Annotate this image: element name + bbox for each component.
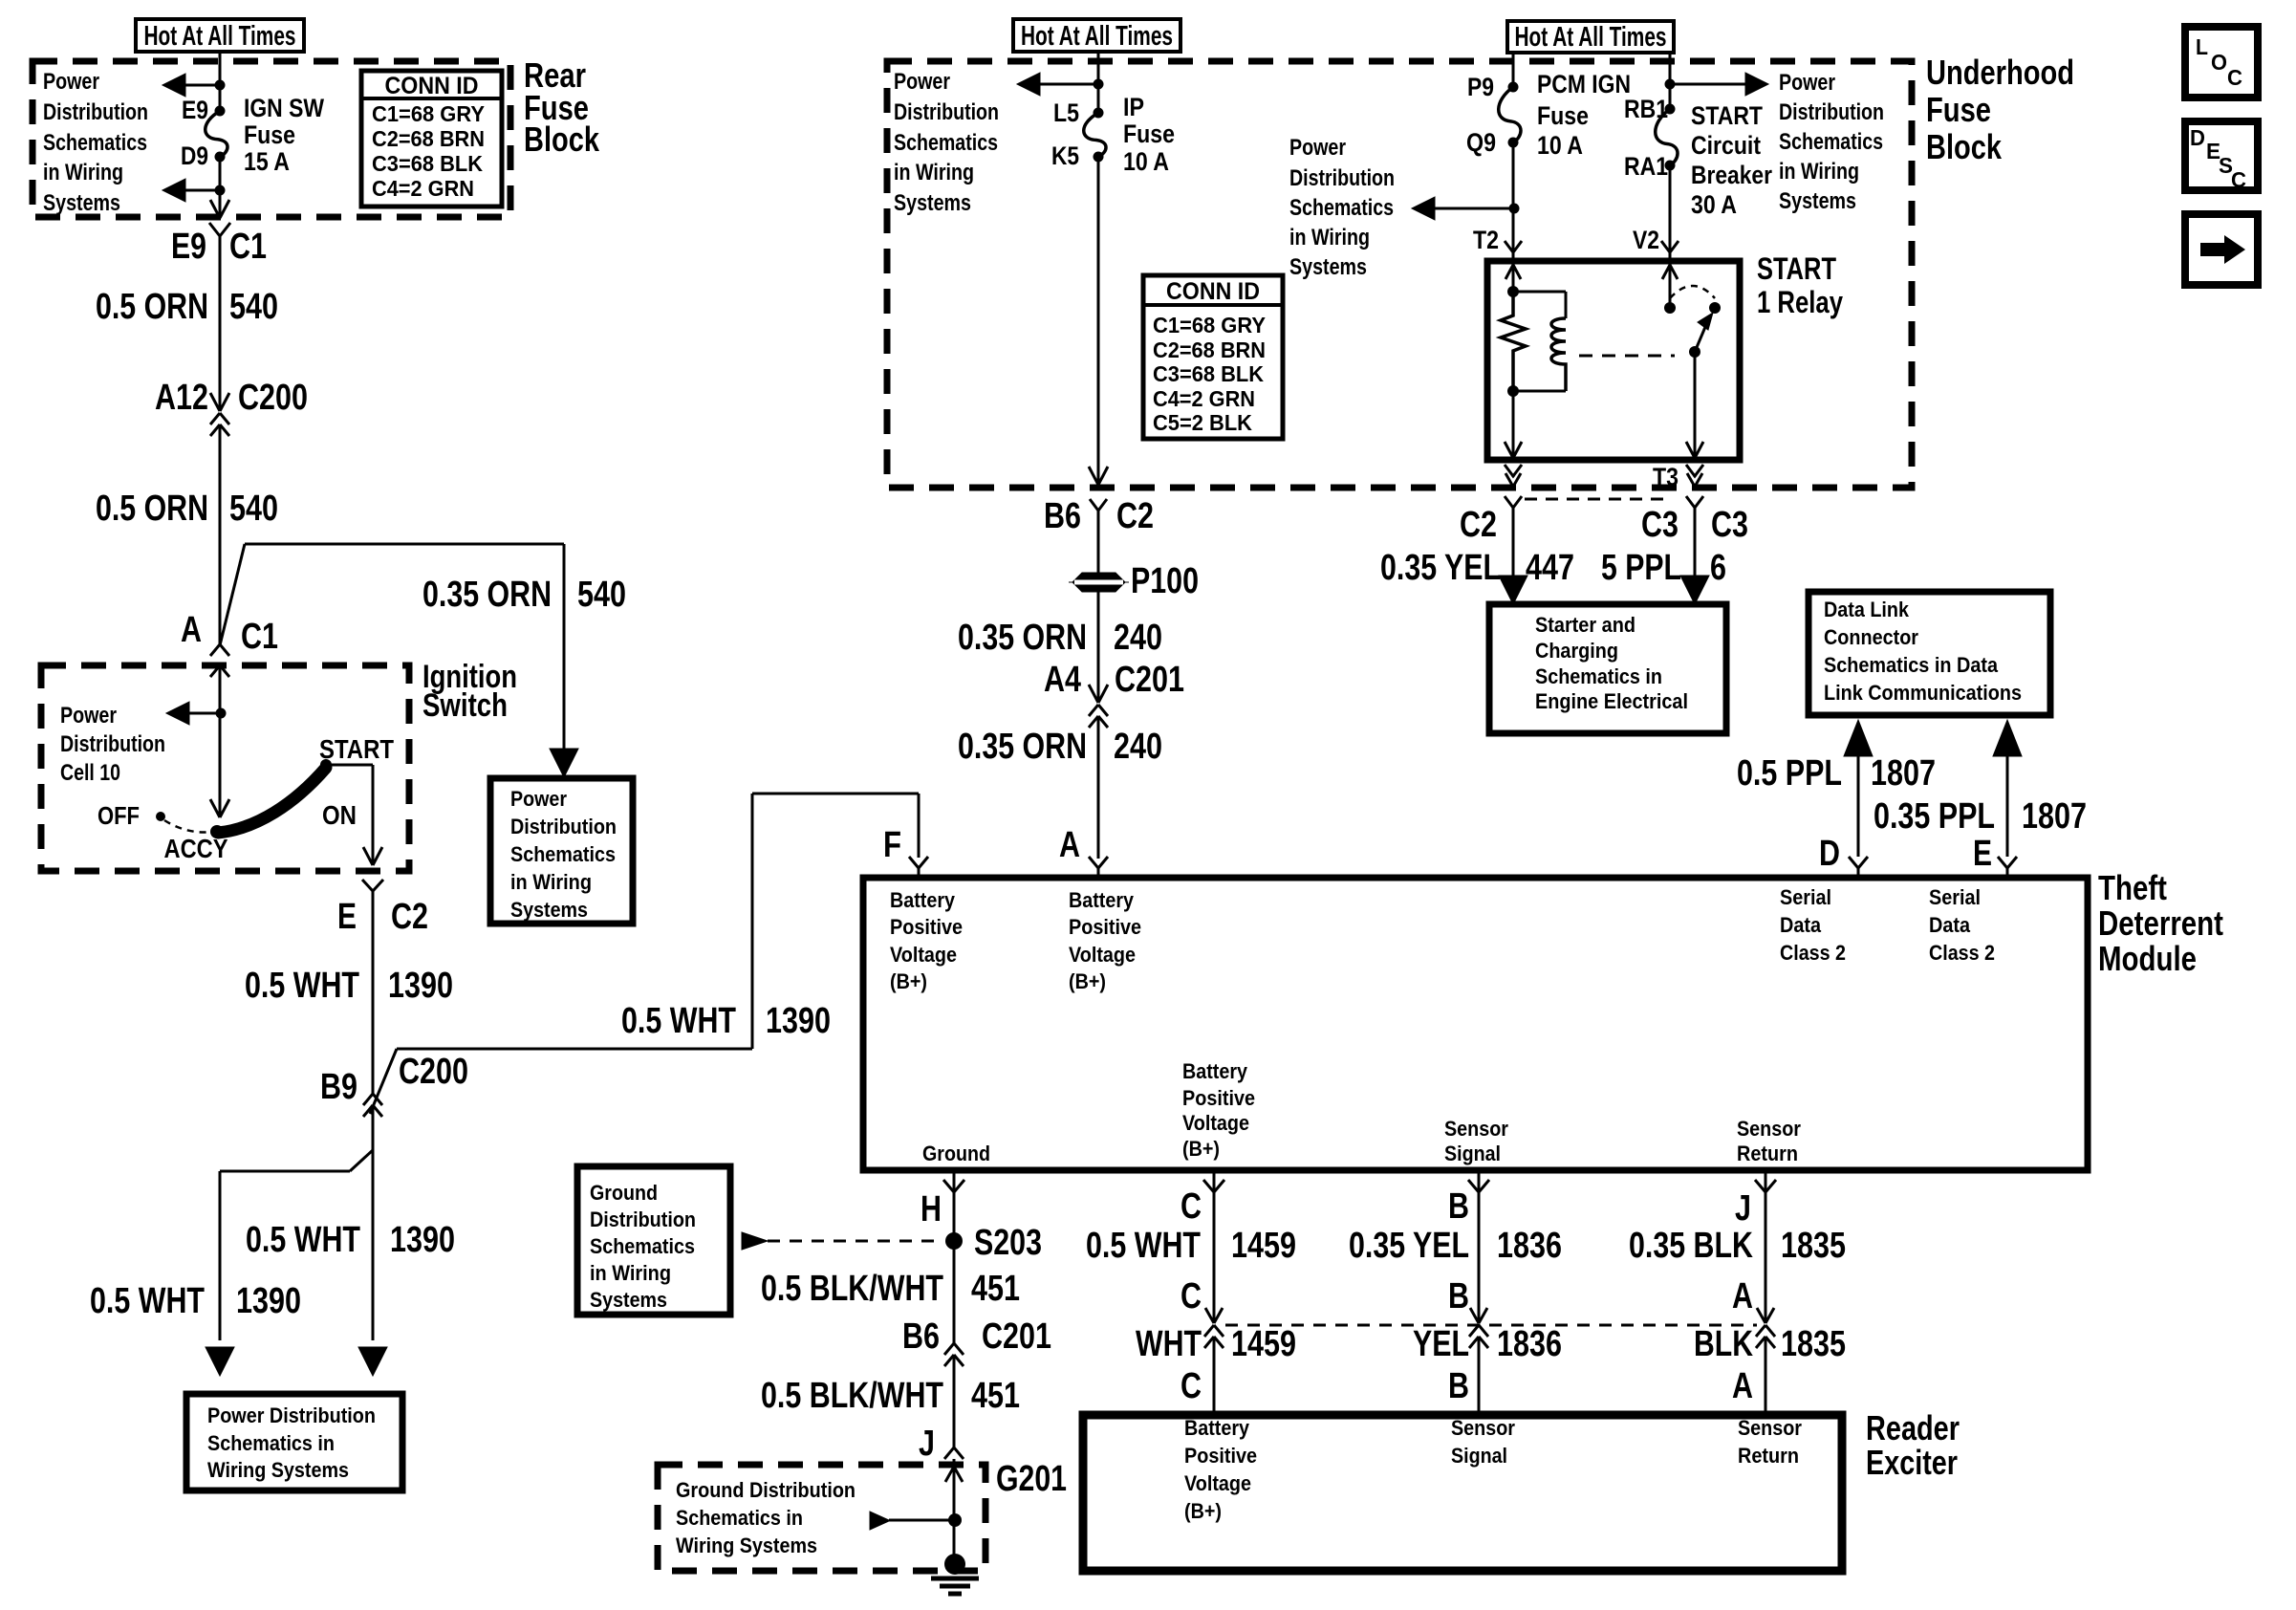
text Power Distribution Schematics in Wiring Systems (IP) — [894, 69, 999, 216]
text terminal L5 — [1053, 98, 1079, 127]
text Ground label pin H — [922, 1142, 990, 1165]
text terminal E9 — [182, 96, 208, 124]
svg-text:Distribution: Distribution — [894, 99, 999, 125]
text 0.5 PPL 1807 — [1737, 753, 1936, 794]
text pin A — [1059, 825, 1080, 865]
svg-text:Distribution: Distribution — [1289, 165, 1395, 191]
svg-text:Reader: Reader — [1866, 1408, 1960, 1447]
text 0.35 YEL 1836 — [1349, 1226, 1562, 1266]
svg-text:0.35 PPL: 0.35 PPL — [1874, 796, 1995, 837]
svg-text:CONN ID: CONN ID — [1166, 278, 1260, 305]
svg-text:C: C — [1180, 1276, 1202, 1316]
wire relay coil to T2 out — [1505, 391, 1522, 458]
pin D theft deterrent module — [1849, 857, 1868, 878]
resistor relay — [1501, 292, 1526, 391]
text A4 C201 labels — [1044, 660, 1184, 700]
svg-text:(B+): (B+) — [1069, 969, 1106, 993]
text terminal RA1 — [1624, 152, 1668, 181]
svg-text:Positive: Positive — [1069, 915, 1141, 939]
svg-text:B: B — [1448, 1276, 1469, 1316]
node junction below D9 — [215, 185, 226, 196]
node relay coil top — [1507, 286, 1519, 297]
fuse PCM IGN 10 A — [1499, 82, 1521, 148]
svg-text:C2: C2 — [1116, 496, 1154, 536]
box Data Link Connector Schematics — [1809, 592, 2050, 715]
svg-text:BLK: BLK — [1694, 1324, 1753, 1364]
svg-text:C: C — [1180, 1366, 1202, 1406]
svg-text:V2: V2 — [1633, 226, 1659, 254]
text Battery Positive Voltage (B+) pin A — [1069, 888, 1141, 993]
pin H theft deterrent module — [943, 1170, 964, 1192]
svg-text:Deterrent: Deterrent — [2098, 903, 2223, 943]
svg-text:Signal: Signal — [1444, 1142, 1501, 1165]
box Theft Deterrent Module — [863, 878, 2088, 1170]
svg-text:Schematics: Schematics — [590, 1234, 695, 1258]
wire fuse output D9 — [219, 157, 222, 218]
wire coil branch bottom — [1513, 390, 1566, 393]
svg-text:Signal: Signal — [1451, 1444, 1507, 1468]
relay box START 1 Relay — [1487, 261, 1740, 460]
svg-text:PCM IGN: PCM IGN — [1537, 70, 1631, 98]
dashed box G201 Ground Distribution — [658, 1465, 986, 1571]
svg-text:Hot At All Times: Hot At All Times — [1021, 21, 1173, 52]
text Theft Deterrent Module — [2098, 868, 2223, 978]
svg-text:J: J — [919, 1424, 935, 1464]
text E C2 labels — [337, 897, 428, 937]
text pin J (ground) — [919, 1424, 935, 1464]
svg-text:Block: Block — [524, 120, 600, 159]
wire A to reader — [1765, 1337, 1767, 1415]
wire serial data D — [1844, 720, 1873, 857]
text B9 C200 labels — [320, 1052, 468, 1107]
svg-text:1807: 1807 — [2022, 796, 2087, 837]
node relay coil bottom — [1507, 385, 1519, 397]
text A12 C200 labels — [155, 378, 308, 418]
svg-text:O: O — [2211, 50, 2227, 75]
svg-text:1835: 1835 — [1781, 1226, 1846, 1266]
grommet P100 — [1069, 573, 1129, 592]
text 0.35 BLK 1835 — [1629, 1226, 1846, 1266]
pin C theft deterrent module — [1203, 1170, 1224, 1192]
svg-text:Schematics in: Schematics in — [676, 1506, 803, 1530]
svg-text:1390: 1390 — [236, 1281, 301, 1321]
node START contact — [320, 759, 332, 771]
wire relay coil feed — [1505, 252, 1521, 292]
wire B module to connector — [1470, 1192, 1487, 1323]
svg-text:1390: 1390 — [766, 1001, 831, 1041]
svg-text:Cell 10: Cell 10 — [60, 760, 120, 786]
box Reader Exciter — [1083, 1415, 1842, 1571]
arrow into power distribution box right — [358, 1347, 387, 1376]
text pin B — [1448, 1186, 1469, 1227]
svg-text:START: START — [319, 734, 394, 764]
svg-text:(B+): (B+) — [1184, 1499, 1222, 1523]
text pin H — [921, 1189, 942, 1229]
arrow to power distribution (IP) — [1017, 73, 1098, 96]
svg-text:Underhood: Underhood — [1926, 53, 2074, 92]
svg-text:Data: Data — [1780, 913, 1822, 937]
svg-text:IGN SW: IGN SW — [244, 94, 324, 122]
wire serial data E — [1993, 720, 2022, 857]
text B6 C2 labels — [1044, 496, 1154, 536]
text 0.5 ORN 540 upper — [96, 287, 278, 327]
svg-text:Distribution: Distribution — [510, 815, 617, 838]
label box Hot At All Times (underhood) — [1507, 21, 1674, 53]
svg-text:A: A — [181, 610, 202, 650]
svg-text:C4=2 GRN: C4=2 GRN — [372, 176, 474, 201]
label box Hot At All Times (IP fuse) — [1013, 19, 1180, 52]
svg-text:Return: Return — [1738, 1444, 1799, 1468]
svg-text:in Wiring: in Wiring — [1289, 225, 1370, 250]
svg-text:Starter and: Starter and — [1535, 613, 1635, 637]
svg-text:E: E — [1973, 834, 1992, 874]
text Power Distribution Schematics in Wiring Systems (right) — [1779, 70, 1884, 214]
svg-text:1390: 1390 — [388, 966, 453, 1006]
svg-text:Sensor: Sensor — [1444, 1117, 1508, 1141]
svg-text:E9: E9 — [171, 227, 206, 267]
fuse IGN SW 15 A — [206, 106, 227, 163]
svg-text:0.35 ORN: 0.35 ORN — [422, 575, 552, 615]
svg-text:1459: 1459 — [1231, 1324, 1296, 1364]
text IGN SW Fuse 15 A — [244, 94, 324, 176]
text START 1 Relay — [1757, 251, 1843, 319]
svg-text:Data Link: Data Link — [1824, 598, 1910, 621]
svg-text:C: C — [1180, 1186, 1202, 1227]
svg-text:Circuit: Circuit — [1691, 131, 1761, 160]
text 0.5 BLK/WHT 451 upper — [761, 1269, 1020, 1309]
text C2 label — [1460, 505, 1497, 545]
svg-text:1390: 1390 — [390, 1220, 455, 1260]
svg-text:5 PPL: 5 PPL — [1601, 548, 1681, 588]
svg-text:1459: 1459 — [1231, 1226, 1296, 1266]
svg-text:C200: C200 — [238, 378, 308, 418]
dashed box Rear Fuse Block — [32, 61, 510, 217]
svg-text:C2=68 BRN: C2=68 BRN — [372, 126, 485, 151]
text terminal T2 — [1473, 226, 1499, 254]
text P100 — [1131, 561, 1199, 601]
svg-text:Ground: Ground — [590, 1181, 658, 1205]
text A C1 labels — [181, 610, 278, 657]
dashed link inline connector — [1225, 1324, 1757, 1327]
text Underhood Fuse Block — [1926, 53, 2074, 166]
svg-text:0.5 BLK/WHT: 0.5 BLK/WHT — [761, 1269, 943, 1309]
relay movable contact arm — [1695, 313, 1713, 352]
svg-text:C: C — [2231, 167, 2246, 192]
svg-text:Battery: Battery — [1069, 888, 1135, 912]
text Power Distribution Cell 10 — [60, 703, 165, 786]
text Ignition Switch — [422, 659, 517, 724]
pin A theft deterrent module — [1089, 857, 1108, 878]
text terminal P9 — [1467, 73, 1494, 101]
dashed box Underhood Fuse Block / IP — [887, 61, 1912, 488]
svg-text:WHT: WHT — [1136, 1324, 1202, 1364]
svg-text:Schematics: Schematics — [894, 130, 998, 156]
connector ground J pin — [944, 1447, 964, 1459]
wire PCM IGN fuse output — [1512, 142, 1515, 252]
box Power Distribution Schematics in Wiring Systems (bottom left) — [186, 1394, 402, 1490]
text Reader Exciter — [1866, 1408, 1960, 1482]
svg-text:K5: K5 — [1051, 141, 1079, 170]
text IP Fuse 10 A — [1123, 93, 1175, 176]
connector A-C1 chevrons — [210, 644, 229, 677]
svg-text:Voltage: Voltage — [890, 943, 957, 967]
svg-text:Engine Electrical: Engine Electrical — [1535, 689, 1688, 713]
dashed box Ignition Switch — [41, 665, 409, 871]
wire 0.5 ORN 540 upper — [219, 236, 222, 411]
text S203 — [974, 1223, 1042, 1263]
svg-text:0.5 WHT: 0.5 WHT — [245, 966, 359, 1006]
icon box arrow — [2185, 214, 2258, 285]
arrow to power distribution schematics (right) — [1670, 73, 1768, 96]
wire branch 0.35 ORN riser — [220, 544, 564, 755]
text WHT 1459 — [1136, 1324, 1296, 1364]
svg-text:C: C — [2227, 65, 2242, 90]
svg-text:G201: G201 — [996, 1459, 1067, 1499]
conn id table (rear fuse block) — [361, 71, 502, 207]
wire into G201 — [945, 1459, 963, 1556]
text OFF — [97, 801, 140, 830]
connector B6-C2 pin — [1090, 499, 1107, 573]
svg-text:F: F — [883, 825, 901, 865]
text 0.5 WHT 1390 (split) — [90, 1281, 301, 1321]
svg-text:E: E — [337, 897, 357, 937]
svg-text:Data: Data — [1929, 913, 1971, 937]
svg-text:P100: P100 — [1131, 561, 1199, 601]
svg-text:Power: Power — [1289, 135, 1346, 161]
text BLK 1835 — [1694, 1324, 1846, 1364]
svg-text:in Wiring: in Wiring — [1779, 159, 1859, 185]
text pin C — [1180, 1186, 1202, 1227]
svg-text:Schematics in: Schematics in — [1535, 664, 1662, 688]
text 0.5 ORN 540 lower — [96, 489, 278, 529]
svg-text:Class 2: Class 2 — [1780, 941, 1846, 965]
svg-text:Systems: Systems — [590, 1288, 667, 1312]
svg-text:E9: E9 — [182, 96, 208, 124]
svg-text:START: START — [1691, 101, 1763, 130]
fuse IP 10 A — [1084, 108, 1106, 163]
svg-text:IP: IP — [1123, 93, 1144, 121]
pin J theft deterrent module — [1755, 1170, 1776, 1192]
dashed link C2 C3 connectors — [1525, 498, 1669, 501]
svg-text:451: 451 — [971, 1376, 1020, 1416]
svg-text:Systems: Systems — [510, 898, 588, 922]
svg-text:Block: Block — [1926, 127, 2003, 166]
svg-text:B6: B6 — [902, 1316, 940, 1357]
svg-text:Distribution: Distribution — [590, 1207, 696, 1231]
connector E-C2 pin — [362, 880, 383, 903]
svg-text:Fuse: Fuse — [1926, 90, 1991, 129]
svg-text:(B+): (B+) — [1182, 1137, 1220, 1161]
pin E theft deterrent module — [1998, 857, 2017, 878]
svg-text:RA1: RA1 — [1624, 152, 1668, 181]
wire 0.5 WHT 1390 from ignition — [372, 891, 375, 1094]
svg-text:START: START — [1757, 251, 1836, 286]
text Battery Positive Voltage (B+) pin F — [890, 888, 963, 993]
svg-text:451: 451 — [971, 1269, 1020, 1309]
connector inline A — [1756, 1325, 1775, 1348]
svg-text:J: J — [1735, 1188, 1751, 1229]
switch wiper arc ACCY to START — [218, 768, 326, 833]
svg-text:Charging: Charging — [1535, 639, 1618, 663]
text B6 C201 labels (ground) — [902, 1316, 1051, 1357]
svg-text:0.35 YEL: 0.35 YEL — [1349, 1226, 1469, 1266]
svg-text:C4=2 GRN: C4=2 GRN — [1153, 386, 1255, 411]
svg-text:Power: Power — [510, 787, 567, 811]
svg-text:C201: C201 — [1115, 660, 1184, 700]
svg-text:Fuse: Fuse — [1537, 101, 1589, 130]
svg-text:L: L — [2196, 34, 2208, 59]
svg-text:540: 540 — [229, 489, 278, 529]
svg-text:OFF: OFF — [97, 801, 140, 830]
svg-text:0.5 PPL: 0.5 PPL — [1737, 753, 1842, 794]
connector below relay T2 side — [1505, 465, 1522, 487]
svg-text:Voltage: Voltage — [1182, 1111, 1249, 1135]
node relay NO contact — [1709, 302, 1721, 314]
svg-text:Power: Power — [1779, 70, 1835, 96]
svg-text:Schematics in Data: Schematics in Data — [1824, 653, 1999, 677]
text B label reader pin — [1448, 1366, 1469, 1406]
box Power Distribution Schematics in Wiring Systems (0.35 ORN) — [490, 778, 633, 924]
text START — [319, 734, 394, 764]
svg-text:Schematics in: Schematics in — [207, 1431, 335, 1455]
wire 0.5 WHT 1390 branch to module F — [397, 794, 919, 1049]
text pin F — [883, 825, 901, 865]
svg-text:1807: 1807 — [1871, 753, 1936, 794]
svg-text:C3=68 BLK: C3=68 BLK — [372, 151, 483, 176]
wire coil branch top — [1513, 292, 1566, 318]
arrow to power distribution (top left) — [162, 74, 220, 97]
ground G201 — [931, 1554, 979, 1594]
svg-text:B6: B6 — [1044, 496, 1081, 536]
icon box LOC — [2185, 27, 2258, 98]
svg-text:in Wiring: in Wiring — [510, 870, 592, 894]
svg-text:C3: C3 — [1641, 505, 1679, 545]
svg-text:Hot At All Times: Hot At All Times — [1515, 22, 1667, 53]
text terminal RB1 — [1624, 95, 1668, 123]
svg-text:0.5 WHT: 0.5 WHT — [90, 1281, 205, 1321]
svg-text:Schematics: Schematics — [510, 842, 616, 866]
svg-text:Serial: Serial — [1780, 885, 1831, 909]
svg-text:Breaker: Breaker — [1691, 161, 1772, 189]
text A label above connector — [1732, 1276, 1753, 1316]
text C3 C3 labels — [1641, 505, 1748, 545]
svg-text:Systems: Systems — [1779, 188, 1856, 214]
svg-text:Distribution: Distribution — [60, 731, 165, 757]
svg-text:L5: L5 — [1053, 98, 1079, 127]
text 0.35 ORN 240 upper — [958, 618, 1162, 658]
svg-text:0.35 ORN: 0.35 ORN — [958, 727, 1087, 767]
node junction PCM IGN — [1509, 204, 1520, 214]
svg-text:B: B — [1448, 1366, 1469, 1406]
wire relay switch to T3 — [1686, 352, 1703, 458]
text A label reader pin — [1732, 1366, 1753, 1406]
svg-text:0.5 WHT: 0.5 WHT — [621, 1001, 736, 1041]
text START Circuit Breaker 30 A — [1691, 101, 1772, 219]
dashed wire to S203 — [768, 1240, 942, 1243]
wire B6 to G201 — [953, 1355, 956, 1447]
svg-text:A: A — [1732, 1366, 1753, 1406]
node OFF contact — [156, 812, 165, 821]
text ON — [322, 800, 357, 830]
label box Hot At All Times (rear fuse block) — [136, 19, 304, 52]
conn id table (underhood) — [1143, 275, 1283, 439]
text 0.5 WHT 1390 (main) — [246, 1220, 455, 1260]
node junction above L5 — [1094, 79, 1104, 90]
text 0.35 ORN 240 lower — [958, 727, 1162, 767]
svg-text:in Wiring: in Wiring — [43, 160, 123, 185]
text Sensor Signal pin B — [1444, 1117, 1508, 1165]
connector C201 terminal A4 — [1089, 705, 1108, 728]
text 0.5 BLK/WHT 451 lower — [761, 1376, 1020, 1416]
svg-text:Connector: Connector — [1824, 625, 1918, 649]
svg-text:0.35 YEL: 0.35 YEL — [1380, 548, 1501, 588]
arrow into power distribution box (0.35 ORN) — [550, 749, 578, 777]
svg-text:C201: C201 — [982, 1316, 1051, 1357]
arrow into starter box right — [1680, 576, 1709, 604]
svg-text:Module: Module — [2098, 939, 2197, 978]
svg-text:S203: S203 — [974, 1223, 1042, 1263]
svg-text:Schematics: Schematics — [1289, 195, 1394, 221]
svg-text:240: 240 — [1114, 727, 1162, 767]
svg-text:Systems: Systems — [894, 190, 971, 216]
svg-text:0.5 BLK/WHT: 0.5 BLK/WHT — [761, 1376, 943, 1416]
svg-text:15 A: 15 A — [244, 147, 290, 176]
svg-text:T3: T3 — [1653, 463, 1679, 491]
connector C3 pin (fuse block output) — [1686, 496, 1703, 579]
svg-text:Voltage: Voltage — [1184, 1471, 1251, 1495]
svg-text:10 A: 10 A — [1537, 131, 1583, 160]
svg-text:A4: A4 — [1044, 660, 1081, 700]
svg-text:B9: B9 — [320, 1067, 357, 1107]
svg-text:P9: P9 — [1467, 73, 1494, 101]
connector inline B — [1469, 1325, 1488, 1348]
svg-text:Distribution: Distribution — [1779, 99, 1884, 125]
svg-text:0.5 ORN: 0.5 ORN — [96, 489, 208, 529]
box Starter and Charging Schematics in Engine Electrical — [1489, 604, 1726, 733]
svg-text:in Wiring: in Wiring — [590, 1261, 671, 1285]
text Sensor Return reader — [1738, 1416, 1802, 1468]
svg-text:540: 540 — [229, 287, 278, 327]
connector C200 terminal B9 — [363, 1049, 397, 1117]
svg-text:Systems: Systems — [1289, 254, 1367, 280]
svg-text:0.5 WHT: 0.5 WHT — [246, 1220, 360, 1260]
svg-text:Power: Power — [60, 703, 117, 729]
wire B to reader — [1478, 1337, 1481, 1415]
svg-text:Battery: Battery — [1182, 1059, 1248, 1083]
arrow into starter box left — [1499, 576, 1527, 604]
svg-text:C1: C1 — [229, 227, 267, 267]
svg-text:Ground: Ground — [922, 1142, 990, 1165]
svg-text:Sensor: Sensor — [1738, 1416, 1802, 1440]
wire breaker output to V2 — [1669, 165, 1672, 252]
wire 0.5 WHT main down — [372, 1105, 375, 1340]
svg-text:Sensor: Sensor — [1451, 1416, 1515, 1440]
svg-text:10 A: 10 A — [1123, 147, 1169, 176]
svg-text:A: A — [1059, 825, 1080, 865]
wire relay switch feed V2 — [1662, 252, 1678, 308]
svg-text:Link Communications: Link Communications — [1824, 681, 2022, 705]
svg-text:Systems: Systems — [43, 190, 120, 216]
svg-text:1836: 1836 — [1497, 1226, 1562, 1266]
text pin J — [1735, 1188, 1751, 1229]
svg-text:0.35 ORN: 0.35 ORN — [958, 618, 1087, 658]
svg-text:C2=68 BRN: C2=68 BRN — [1153, 337, 1266, 362]
svg-text:Sensor: Sensor — [1737, 1117, 1801, 1141]
node G201 junction — [948, 1513, 962, 1527]
node junction breaker top — [1665, 79, 1676, 90]
svg-text:Switch: Switch — [422, 687, 508, 724]
text Battery Positive Voltage (B+) pin C — [1182, 1059, 1255, 1161]
